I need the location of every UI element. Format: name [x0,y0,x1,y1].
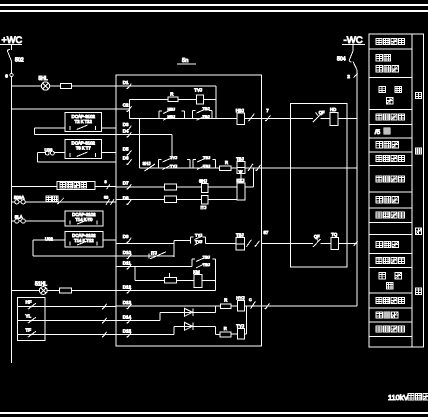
svg-text:HBJ: HBJ [168,114,176,119]
svg-text:T8 K T7: T8 K T7 [76,146,91,151]
svg-text:ITJ: ITJ [151,251,157,256]
svg-text:R: R [170,92,173,97]
svg-text:TYJ: TYJ [170,155,177,160]
svg-text:TBJ: TBJ [203,106,210,111]
svg-text:+WC: +WC [2,35,23,45]
svg-text:6: 6 [5,74,8,79]
svg-text:33: 33 [104,196,108,200]
svg-text:U02: U02 [45,237,53,242]
svg-text:TBJ: TBJ [203,164,210,169]
svg-text:110kV: 110kV [388,393,408,402]
svg-text:D13: D13 [123,300,132,305]
svg-text:TYJ: TYJ [236,323,244,328]
svg-text:W: W [239,170,243,174]
svg-text:/5: /5 [375,129,381,136]
svg-text:51HL: 51HL [35,281,47,287]
svg-text:HBJ: HBJ [236,108,244,113]
svg-text:502: 502 [15,58,24,64]
svg-text:D15: D15 [123,328,132,333]
svg-text:D3: D3 [123,122,129,127]
svg-text:TYJ: TYJ [195,232,202,237]
svg-text:D6: D6 [123,156,129,161]
svg-text:QF: QF [319,110,325,115]
svg-text:R: R [225,160,228,165]
svg-text:T2 K T12: T2 K T12 [75,119,93,124]
svg-text:5HL: 5HL [39,76,48,82]
svg-text:D10: D10 [123,250,132,255]
svg-text:KM: KM [193,270,200,275]
svg-text:HD: HD [330,107,336,112]
svg-text:TYJ: TYJ [170,164,177,169]
svg-text:87: 87 [264,230,269,235]
svg-text:SHJ: SHJ [143,161,151,166]
svg-text:D9: D9 [123,234,129,239]
svg-text:TBJ: TBJ [203,114,210,119]
svg-text:5n: 5n [182,58,188,64]
svg-text:D4: D4 [123,128,129,133]
svg-text:D7: D7 [123,180,129,185]
svg-text:C2: C2 [123,103,129,108]
svg-text:2: 2 [347,74,350,80]
svg-text:D12: D12 [123,284,132,289]
svg-text:TVJ: TVJ [194,88,202,93]
svg-text:TBJ: TBJ [203,254,210,259]
svg-text:SHJ: SHJ [199,178,207,183]
svg-text:504: 504 [337,57,346,63]
svg-text:TBJ: TBJ [203,155,210,160]
svg-text:TYJ: TYJ [195,239,202,244]
svg-text:ITJ: ITJ [201,205,207,210]
svg-text:D11: D11 [123,260,131,265]
svg-text:TF: TF [26,327,32,332]
svg-text:8: 8 [105,180,107,184]
svg-text:TBJ: TBJ [203,262,210,267]
svg-text:KKJ: KKJ [237,178,245,183]
svg-text:HF: HF [26,299,32,304]
svg-text:TQ: TQ [331,232,338,237]
svg-text:R: R [224,326,227,331]
svg-text:D1: D1 [123,80,129,85]
svg-text:C: C [249,298,252,302]
svg-text:D5: D5 [123,146,129,151]
svg-text:TBJ: TBJ [236,232,244,237]
svg-text:D14: D14 [123,314,132,319]
svg-text:TBJ: TBJ [236,157,244,162]
svg-text:HYJ: HYJ [236,295,244,300]
svg-text:YL: YL [26,313,32,318]
svg-text:HBJ: HBJ [168,106,176,111]
svg-text:R: R [224,298,227,303]
svg-text:QF: QF [314,234,320,239]
